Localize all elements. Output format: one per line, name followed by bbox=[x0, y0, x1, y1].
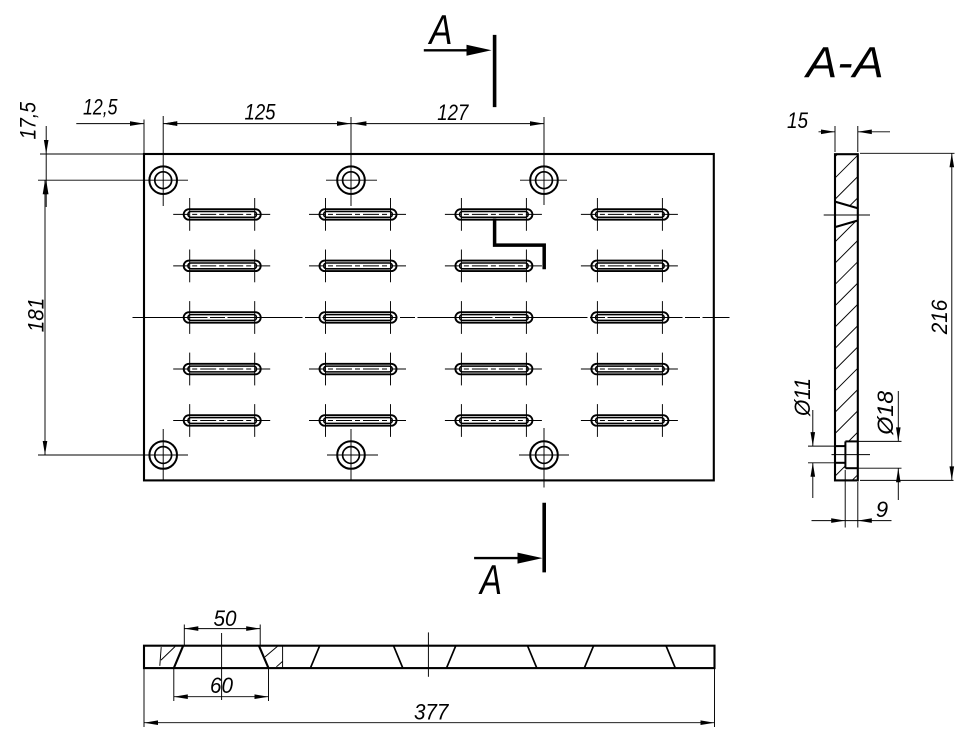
dimension 377 bbox=[144, 668, 715, 727]
slot row2 col1 bbox=[173, 250, 271, 283]
slot row5 col2 bbox=[309, 404, 407, 437]
svg-text:127: 127 bbox=[437, 100, 469, 125]
slot row3 col2 bbox=[320, 301, 397, 334]
section hatching bbox=[830, 128, 864, 503]
svg-text:9: 9 bbox=[876, 497, 888, 522]
dimension Ø18 bbox=[858, 390, 902, 500]
svg-text:216: 216 bbox=[927, 299, 952, 335]
hole right top Ø18/Ø11 bbox=[520, 117, 567, 205]
dimension 216 bbox=[860, 153, 955, 480]
slot row2 col3 bbox=[445, 250, 543, 283]
svg-text:12,5: 12,5 bbox=[83, 95, 118, 120]
hole left bottom Ø18/Ø11 bbox=[38, 429, 188, 481]
bottom view slot1 centerline bbox=[221, 633, 223, 700]
dimension 12,5 bbox=[76, 95, 177, 154]
svg-text:Ø11: Ø11 bbox=[790, 378, 815, 417]
slot row2 col2 bbox=[309, 250, 407, 283]
slot row1 col4 bbox=[581, 198, 679, 231]
slot row4 col1 bbox=[173, 353, 271, 386]
svg-text:17,5: 17,5 bbox=[16, 101, 41, 139]
plate outline front view bbox=[144, 154, 714, 480]
slot row5 col3 bbox=[445, 404, 543, 437]
section line A bottom thick stroke bbox=[542, 503, 546, 573]
svg-text:Ø18: Ø18 bbox=[873, 390, 898, 436]
label A top bbox=[427, 6, 452, 53]
svg-text:A: A bbox=[427, 6, 452, 53]
section line A top thick stroke bbox=[493, 35, 497, 107]
plate horizontal centerline bbox=[133, 317, 730, 319]
svg-text:60: 60 bbox=[210, 673, 234, 698]
section title A-A bbox=[803, 40, 884, 88]
bottom view local section boundaries bbox=[160, 647, 283, 668]
hole middle top Ø18/Ø11 bbox=[326, 117, 377, 206]
slot row5 col4 bbox=[581, 404, 679, 437]
slot row1 col1 bbox=[173, 198, 271, 231]
hole right bottom Ø18/Ø11 bbox=[519, 428, 569, 488]
section arrow A top bbox=[424, 45, 492, 56]
svg-text:A-A: A-A bbox=[803, 40, 884, 88]
dimension 50 bbox=[184, 606, 260, 645]
bottom view centerline bbox=[427, 632, 429, 676]
slot row2 col4 bbox=[581, 250, 679, 283]
dimension 17,5 bbox=[16, 101, 145, 207]
slot row3 col3 bbox=[455, 301, 532, 334]
section counterbore profile bbox=[832, 441, 871, 468]
bottom view hatching bbox=[161, 646, 283, 666]
hole left top Ø18/Ø11 bbox=[38, 116, 188, 206]
slot row4 col2 bbox=[309, 353, 407, 386]
svg-text:A: A bbox=[478, 556, 502, 603]
dimension 181 bbox=[24, 180, 49, 455]
section slot cut edges bbox=[824, 202, 870, 228]
bottom view slot 1 countersink edges bbox=[174, 646, 269, 668]
slot row4 col3 bbox=[445, 353, 543, 386]
slot row3 col4 bbox=[591, 301, 668, 334]
svg-text:15: 15 bbox=[787, 108, 809, 133]
dimension 9 bbox=[812, 470, 892, 528]
hole middle bottom Ø18/Ø11 bbox=[327, 429, 378, 481]
svg-text:377: 377 bbox=[414, 699, 449, 724]
section arrow A bottom bbox=[474, 553, 542, 564]
svg-text:125: 125 bbox=[245, 100, 277, 125]
label A bottom bbox=[478, 556, 502, 603]
svg-text:50: 50 bbox=[214, 606, 238, 631]
slot row4 col4 bbox=[581, 353, 679, 386]
dimension 15 bbox=[787, 108, 890, 152]
slot row3 col1 bbox=[184, 301, 261, 334]
section bar outline bbox=[835, 154, 858, 480]
dimension 127 bbox=[351, 100, 544, 126]
dimension Ø11 bbox=[790, 378, 835, 498]
section line jog bbox=[495, 219, 545, 270]
slot row1 col2 bbox=[309, 198, 407, 231]
dimension 60 bbox=[174, 668, 269, 701]
svg-text:181: 181 bbox=[24, 298, 49, 333]
bottom view slots 2-4 countersink edges bbox=[311, 646, 676, 668]
dimension 125 bbox=[163, 100, 351, 126]
slot row5 col1 bbox=[173, 404, 271, 437]
bottom view outline bbox=[144, 646, 715, 668]
slot row1 col3 bbox=[445, 198, 543, 231]
